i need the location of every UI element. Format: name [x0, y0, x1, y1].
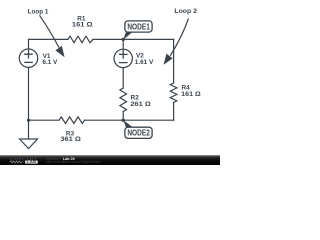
resistor R3: [59, 117, 84, 124]
svg-text:161 Ω: 161 Ω: [181, 91, 201, 98]
wire bottom-left segment: [29, 119, 60, 121]
voltage source V1: [19, 49, 37, 67]
circuitlab logo LAB box: [25, 161, 38, 164]
wire left branch (below V1): [28, 67, 30, 120]
wire right branch (top): [173, 39, 175, 83]
voltage source V2: [114, 49, 132, 67]
junction dot left-bottom: [27, 119, 30, 122]
watermark bar: [0, 155, 220, 165]
circuitlab logo zigzag: [10, 161, 24, 163]
svg-text:361 Ω: 361 Ω: [60, 136, 81, 143]
svg-text:NODE1: NODE1: [127, 22, 150, 31]
junction dot node2: [122, 119, 125, 122]
wire middle branch (V2 to R2): [122, 68, 124, 88]
resistor R1: [68, 36, 93, 43]
wire right branch (bottom): [173, 103, 175, 121]
svg-text:1.61 V: 1.61 V: [135, 59, 154, 66]
resistor R4: [170, 83, 177, 103]
svg-text:NODE2: NODE2: [127, 129, 150, 138]
node NODE2 label: [123, 120, 152, 138]
resistor R2: [120, 88, 127, 112]
svg-text:LAB: LAB: [27, 160, 37, 164]
svg-text:Loop 1: Loop 1: [28, 9, 49, 16]
loop 1 arrow: [40, 15, 65, 57]
wire top-left segment: [29, 38, 69, 40]
wire middle branch (R2 to bottom): [122, 112, 124, 121]
junction dot node1: [122, 38, 125, 41]
node NODE1 label: [123, 21, 152, 40]
svg-text:Loop 2: Loop 2: [174, 8, 197, 15]
wire left branch (top stub above V1): [28, 39, 30, 49]
svg-text:http://circuitlab.com/c/2j6kj8: http://circuitlab.com/c/2j6kj8444bz: [46, 160, 100, 164]
wire bottom-right segment: [85, 119, 174, 121]
svg-text:6.1 V: 6.1 V: [42, 59, 58, 66]
wire top-right segment: [93, 38, 174, 40]
svg-text:161 Ω: 161 Ω: [72, 22, 93, 29]
ground: [20, 120, 38, 148]
svg-text:261 Ω: 261 Ω: [130, 101, 151, 108]
loop 2 arrow: [164, 19, 189, 65]
wire middle branch (top stub above V2): [122, 39, 124, 49]
